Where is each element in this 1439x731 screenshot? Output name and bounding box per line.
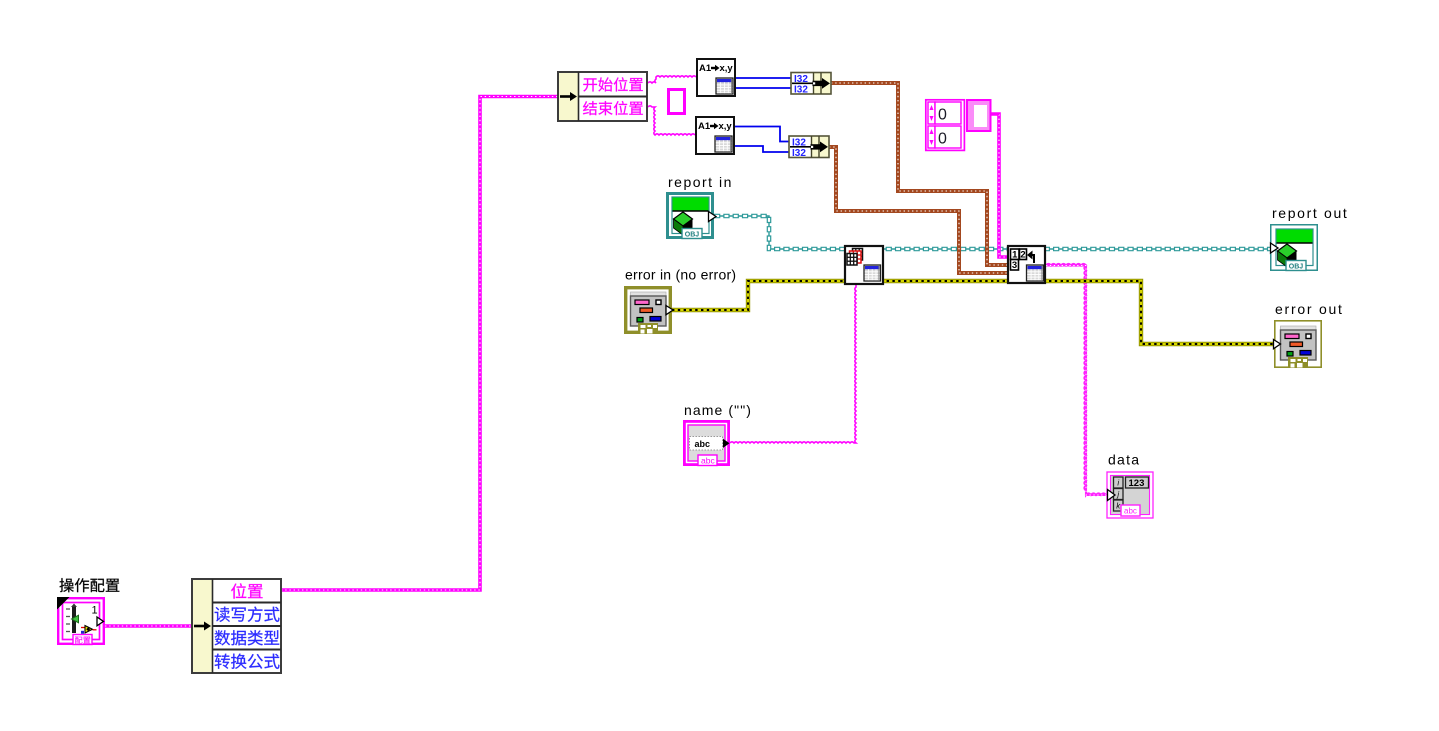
svg-text:error in (no error): error in (no error) — [625, 267, 736, 283]
svg-text:error out: error out — [1275, 301, 1344, 317]
svg-text:I32: I32 — [792, 148, 806, 159]
svg-text:abc: abc — [1124, 506, 1137, 515]
svg-text:1: 1 — [92, 605, 98, 617]
svg-text:A1: A1 — [698, 121, 711, 132]
svg-text:report out: report out — [1272, 205, 1348, 221]
svg-text:0: 0 — [938, 107, 947, 124]
svg-text:0: 0 — [938, 131, 947, 148]
svg-text:OBJ: OBJ — [685, 231, 700, 238]
svg-text:j: j — [1116, 490, 1119, 499]
svg-text:name (""): name ("") — [684, 402, 752, 418]
svg-text:I32: I32 — [794, 84, 808, 95]
svg-text:OBJ: OBJ — [1289, 263, 1304, 270]
svg-text:A1: A1 — [699, 63, 712, 74]
svg-text:2: 2 — [1020, 250, 1025, 261]
svg-text:I32: I32 — [792, 137, 806, 148]
svg-text:3: 3 — [1012, 260, 1017, 271]
svg-text:abc: abc — [701, 455, 715, 465]
svg-text:x,y: x,y — [719, 121, 733, 132]
svg-text:x,y: x,y — [720, 63, 734, 74]
svg-text:data: data — [1108, 452, 1140, 468]
svg-text:report in: report in — [668, 174, 733, 190]
svg-text:123: 123 — [1129, 478, 1145, 489]
svg-text:I32: I32 — [794, 74, 808, 85]
svg-text:i: i — [1117, 479, 1119, 488]
svg-text:abc: abc — [695, 439, 711, 449]
